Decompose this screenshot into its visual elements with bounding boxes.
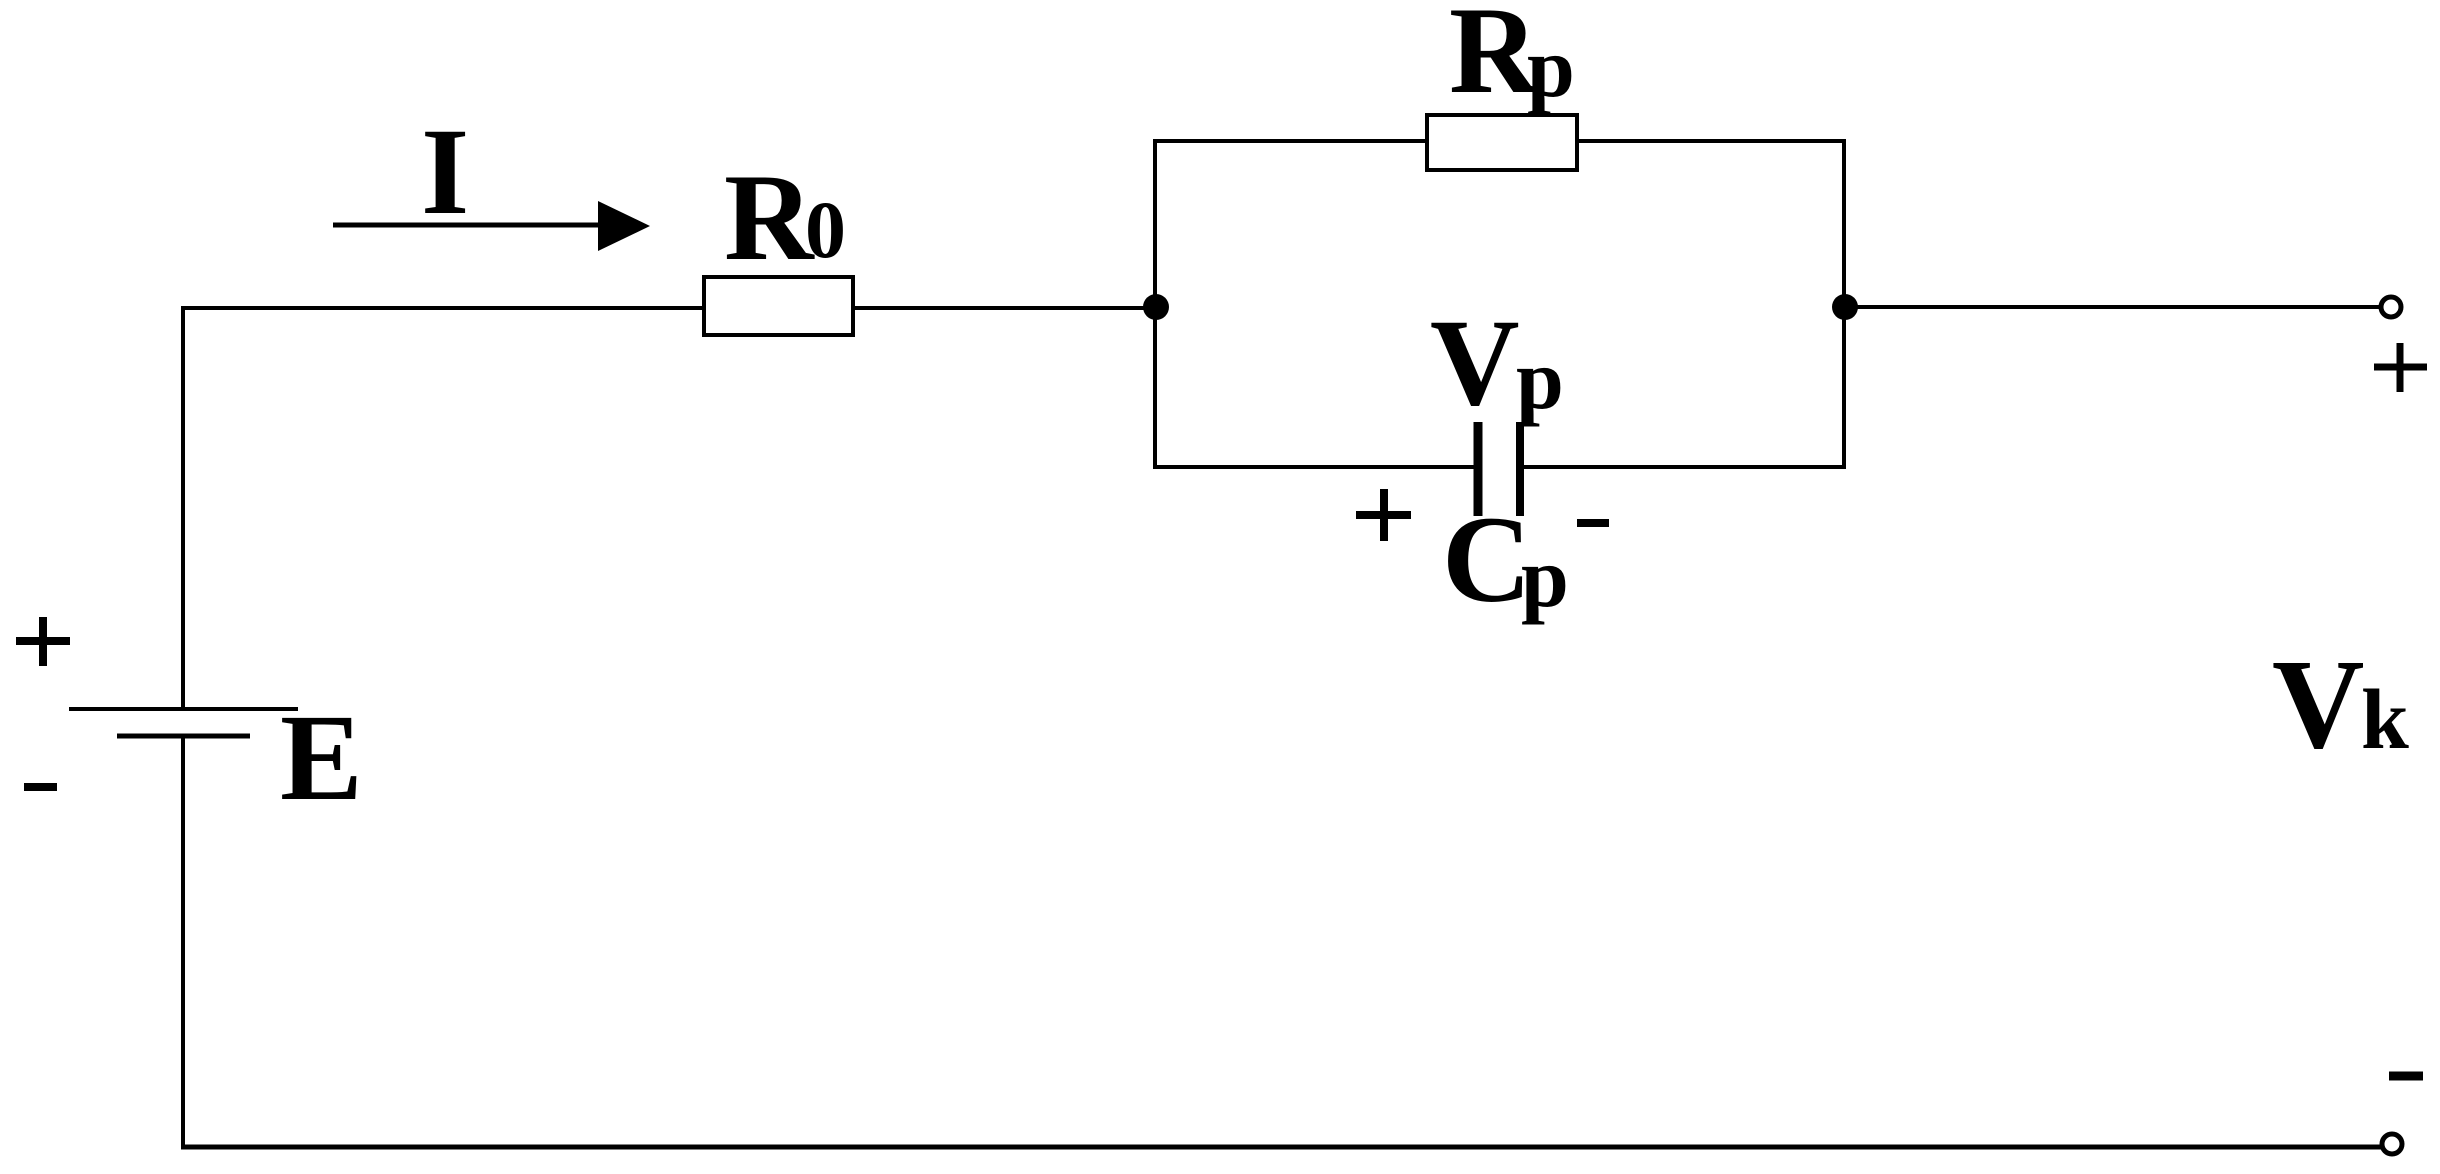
svg-text:p: p <box>1521 529 1569 625</box>
resistor Rp <box>1427 115 1577 170</box>
battery E long plate <box>69 707 298 711</box>
svg-text:I: I <box>421 103 469 240</box>
battery E short plate <box>117 734 250 739</box>
current arrow <box>333 223 612 228</box>
svg-text:V: V <box>2272 633 2364 775</box>
wire parallel-block top branch <box>1153 139 1846 143</box>
svg-text:k: k <box>2361 671 2409 767</box>
wire top-left horizontal (battery + to R0) <box>181 306 1156 310</box>
capacitor plus label <box>1356 489 1411 541</box>
wire parallel-block bottom branch right segment <box>1524 465 1846 469</box>
wire left vertical upper (to battery) <box>181 306 185 709</box>
wire parallel-block left vertical <box>1153 139 1157 469</box>
battery E minus label <box>24 783 57 791</box>
capacitor Cp right plate <box>1516 422 1524 516</box>
svg-text:0: 0 <box>805 184 846 275</box>
wire node B to output terminal <box>1845 305 2382 309</box>
svg-text:V: V <box>1430 294 1520 431</box>
resistor R0 <box>704 277 853 335</box>
svg-text:R: R <box>724 149 815 286</box>
svg-text:p: p <box>1516 331 1564 427</box>
output terminal bottom <box>2382 1134 2402 1154</box>
wire parallel-block bottom branch left segment <box>1153 465 1474 469</box>
capacitor Cp left plate <box>1474 422 1483 516</box>
svg-text:E: E <box>280 689 363 826</box>
output terminal top <box>2381 297 2401 317</box>
svg-text:C: C <box>1442 491 1532 628</box>
svg-text:p: p <box>1527 19 1575 115</box>
wire parallel-block right vertical <box>1842 139 1846 469</box>
wire bottom horizontal <box>181 1145 2384 1150</box>
battery E plus label <box>16 617 70 666</box>
wire left vertical lower (battery to bottom) <box>181 736 185 1149</box>
output plus label <box>2374 343 2427 392</box>
output minus label <box>2389 1072 2423 1081</box>
node B junction dot <box>1832 294 1858 320</box>
node A junction dot <box>1143 294 1169 320</box>
capacitor minus label <box>1577 519 1609 527</box>
